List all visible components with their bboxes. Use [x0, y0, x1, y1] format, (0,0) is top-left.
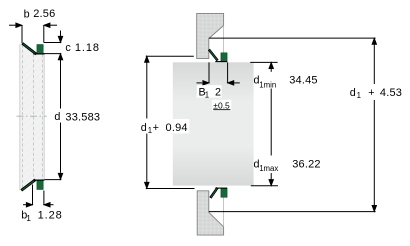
dim d1min: stem below arrow [270, 68, 272, 71]
dim b: left extension line [21, 25, 23, 43]
shaft edge line right [43, 54, 45, 180]
seal S1 diagonal (top) [22, 43, 36, 54]
seal S4 block [221, 188, 227, 197]
dim d1min: up arrowhead [269, 62, 274, 68]
dim d: bottom tick [44, 179, 61, 181]
centerline [17, 115, 47, 117]
dim b1: right stem [48, 204, 54, 206]
dim b: left arrowhead [16, 23, 22, 28]
dim B1: left stem [197, 82, 203, 84]
dim b: right extension line [43, 25, 45, 42]
dim d1+0.94: bottom arrowhead (down) [145, 182, 150, 188]
seal S2 block (bottom) [37, 180, 43, 189]
seal S3 block [221, 53, 227, 62]
dim d1+0.94: top arrowhead (up) [145, 56, 150, 62]
label background box B1 [197, 85, 222, 97]
seal S1 block (top) [37, 45, 43, 54]
svg-text:b: b [24, 8, 30, 20]
dim d1max: stem above arrow [270, 173, 272, 180]
svg-text:1max: 1max [259, 164, 278, 173]
dim d: line upper segment [60, 60, 62, 109]
shaft band (hatched) [20, 44, 45, 191]
svg-text:1: 1 [26, 213, 31, 223]
dim d1 vertical line middle [270, 89, 272, 156]
svg-text:2.56: 2.56 [33, 8, 55, 20]
seal S3 diagonal (top right) [209, 50, 218, 61]
dim d1+4.53: down arrowhead [372, 205, 377, 211]
shaft dashed line 2 [33, 54, 35, 180]
dim c: upper arrow (pointing down) [60, 31, 62, 37]
dim B1: left arrowhead [203, 81, 209, 86]
bore faint line bottom [223, 193, 225, 227]
seal S1 diagonal green core [23, 44, 36, 54]
label background box tolerance [212, 100, 231, 111]
dim d1+4.53: bottom long line [209, 211, 376, 213]
dim d1+4.53: top long line [209, 37, 376, 39]
svg-text:d: d [141, 122, 147, 134]
seal S2 diagonal green core [22, 180, 35, 190]
bore faint line top [223, 26, 225, 53]
svg-text:36.22: 36.22 [292, 159, 321, 171]
housing bar bottom [197, 191, 223, 235]
svg-text:±0.5: ±0.5 [213, 100, 230, 110]
dim b1: left stem [23, 204, 29, 206]
dim b: right stem [50, 24, 57, 26]
dim d: bottom arrowhead (pointing down) [58, 173, 63, 179]
shaft edge line left [19, 44, 21, 190]
svg-text:+: + [153, 122, 159, 134]
svg-text:4.53: 4.53 [380, 87, 402, 99]
dim B1: left extension line [208, 62, 210, 83]
dim c: top tick [44, 42, 62, 44]
seal S2 top line [33, 179, 44, 181]
seal S4 diagonal green core [211, 189, 217, 198]
dim b: left stem [9, 24, 16, 26]
dim d1+4.53: up arrowhead [372, 38, 377, 44]
dim d1+4.53: vertical line upper [373, 44, 375, 84]
dim c: bottom tick [43, 53, 61, 55]
svg-text:34.45: 34.45 [289, 75, 318, 87]
svg-text:d: d [54, 111, 60, 123]
svg-text:0.94: 0.94 [166, 122, 188, 134]
dim d1+4.53: vertical line lower [373, 100, 375, 206]
seal S4 top line [215, 187, 227, 189]
svg-text:d: d [350, 87, 356, 99]
dim d1+0.94: top extension line [146, 55, 194, 57]
seal S3 diagonal green core [210, 50, 217, 60]
dim d: line lower segment [60, 123, 62, 173]
dim B1: right stem [234, 82, 240, 84]
svg-text:1: 1 [357, 91, 361, 100]
dim d1+0.94: bottom extension line [146, 188, 195, 190]
dim b: right arrowhead [44, 23, 50, 28]
dim b1: right arrowhead [44, 202, 50, 207]
svg-text:+: + [368, 87, 374, 99]
dim B1: tolerance underline [213, 109, 230, 111]
svg-text:1: 1 [148, 126, 152, 135]
shaft dashed line 3 [41, 54, 43, 180]
label background box d1+0.94 [139, 119, 189, 133]
seal S4 diagonal (bottom right) [210, 188, 217, 198]
dim d1+0.94: vertical line upper [146, 63, 148, 119]
housing bar top [197, 13, 224, 58]
dim d1max: down arrowhead [269, 180, 274, 186]
svg-text:1min: 1min [259, 80, 276, 89]
svg-text:1.28: 1.28 [38, 209, 63, 221]
dim d1+0.94: vertical line lower [146, 134, 148, 183]
dim d1min/d1max: top tick [250, 61, 277, 63]
dim b1: left extension line [32, 185, 34, 206]
bore rectangle (shaft) [173, 62, 254, 185]
dim b1: left arrowhead [26, 202, 32, 207]
dim B1: right arrowhead [228, 81, 234, 86]
seal S1 bottom line [33, 53, 44, 55]
svg-text:2: 2 [215, 86, 221, 98]
dim b1: right extension line [43, 191, 45, 206]
svg-text:33.583: 33.583 [65, 111, 100, 123]
svg-text:1.18: 1.18 [75, 42, 100, 54]
svg-text:1: 1 [205, 91, 209, 100]
dim c: lower arrow (pointing up) [58, 54, 63, 60]
shaft dashed line 1 [21, 45, 23, 190]
dim d1min/d1max: bottom tick [251, 185, 278, 187]
svg-text:c: c [65, 42, 71, 54]
seal S3 bottom line [215, 61, 227, 63]
seal S2 diagonal (bottom) [21, 180, 35, 191]
dim B1: right extension line [227, 62, 229, 83]
